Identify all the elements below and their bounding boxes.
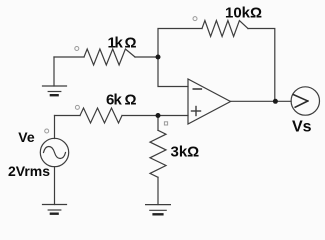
ground GND1 (top left) bbox=[43, 57, 67, 95]
wire: R2 right, down to output node B bbox=[248, 29, 275, 102]
junction node A dot bbox=[156, 55, 161, 60]
source V1 circle bbox=[40, 138, 68, 166]
resistor R3 6kΩ zigzag bbox=[80, 108, 122, 123]
node marker near R2 bbox=[193, 17, 197, 21]
node marker near R4 (square) bbox=[164, 122, 167, 125]
svg-text:3kΩ: 3kΩ bbox=[171, 144, 200, 161]
wire: R4 bottom to GND3 bbox=[157, 177, 159, 204]
wire: R1 right to node A bbox=[135, 56, 158, 58]
op-amp U1 triangle bbox=[188, 79, 231, 124]
resistor R4 3kΩ zigzag bbox=[150, 130, 166, 177]
resistor R2 10kΩ zigzag bbox=[202, 21, 248, 37]
svg-text:Ve: Ve bbox=[18, 129, 35, 145]
wire: node C down to R4 top bbox=[157, 116, 159, 131]
svg-text:1k Ω: 1k Ω bbox=[108, 35, 137, 52]
wire: V1 top to R3 left bbox=[55, 115, 81, 117]
wire: V1 source stem top bbox=[54, 116, 56, 139]
ground GND2 (below V1) bbox=[43, 205, 67, 214]
op-amp U1 minus sign bbox=[193, 88, 201, 90]
node marker near V1 bbox=[45, 129, 49, 133]
wire: GND1 to R1 left bbox=[54, 56, 84, 58]
svg-text:Vs: Vs bbox=[292, 119, 312, 136]
svg-text:6k Ω: 6k Ω bbox=[106, 92, 137, 109]
wire: op-amp output to voltmeter bbox=[231, 100, 292, 102]
wire: node A down to op-amp inverting input bbox=[158, 57, 188, 87]
node marker near R1 bbox=[75, 47, 79, 51]
ground GND3 (below R4) bbox=[146, 205, 171, 215]
resistor R1 1kΩ zigzag bbox=[84, 49, 135, 65]
wire: node A up and right to R2 (feedback) bbox=[158, 29, 202, 58]
svg-text:10kΩ: 10kΩ bbox=[225, 5, 262, 22]
voltmeter XMM1 rotated V symbol bbox=[293, 95, 307, 108]
source V1 sine symbol bbox=[44, 147, 66, 159]
svg-text:2Vrms: 2Vrms bbox=[8, 163, 50, 179]
wire: V1 bottom stem to GND2 bbox=[54, 167, 56, 205]
op-amp U1 plus sign bbox=[192, 107, 201, 116]
node marker near R3 bbox=[75, 105, 79, 109]
junction node C dot bbox=[156, 113, 161, 118]
wire: R3 right through node C to op-amp non-inverting input bbox=[122, 115, 188, 117]
voltmeter XMM1 circle bbox=[291, 87, 319, 115]
junction node B dot (output) bbox=[273, 99, 278, 104]
